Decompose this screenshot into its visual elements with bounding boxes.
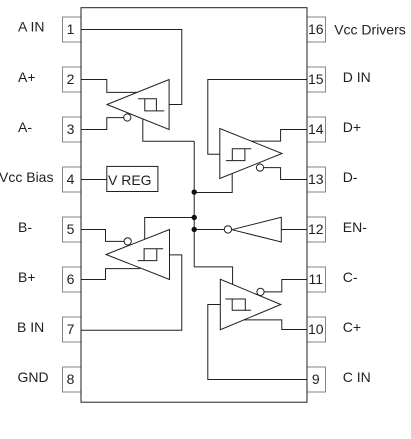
svg-text:B+: B+ [18, 269, 36, 285]
svg-text:A IN: A IN [18, 19, 44, 35]
svg-text:Vcc Drivers: Vcc Drivers [334, 22, 406, 38]
junction dot inverter output [192, 227, 197, 232]
svg-text:D IN: D IN [343, 69, 371, 85]
net label A IN [18, 19, 44, 35]
net label B+ [18, 269, 36, 285]
wire C+: pin 10 to driver C noninverting output [244, 320, 307, 330]
pin 4 box [63, 167, 82, 192]
svg-text:C+: C+ [343, 319, 361, 335]
pin number 8 [67, 371, 75, 387]
net label A- [18, 119, 32, 135]
enable inverter triangle [232, 217, 281, 242]
pin 6 box [63, 267, 82, 292]
svg-text:14: 14 [308, 121, 324, 137]
hysteresis symbol driver B [138, 249, 164, 261]
net label EN- [343, 219, 367, 235]
svg-text:C-: C- [343, 269, 358, 285]
svg-text:2: 2 [67, 71, 75, 87]
wire enable to driver D [194, 174, 232, 193]
driver A triangle [107, 80, 169, 130]
pin 8 box [63, 367, 82, 392]
svg-text:4: 4 [67, 171, 75, 187]
svg-text:EN-: EN- [343, 219, 367, 235]
pin number 5 [67, 221, 75, 237]
pin number 6 [67, 271, 75, 287]
driver D triangle [220, 129, 282, 179]
svg-text:11: 11 [309, 271, 324, 287]
wire B+: pin 6 to driver B noninverting output [81, 269, 140, 280]
inversion bubble C- [257, 288, 264, 295]
pin 14 box [307, 117, 326, 142]
pin 9 box [307, 367, 326, 392]
hysteresis symbol driver A [138, 99, 164, 111]
net label B- [18, 219, 32, 235]
net label C- [343, 269, 358, 285]
pin number 13 [308, 171, 324, 187]
wire A-: pin 3 to driver A inverting output bubble [81, 118, 124, 130]
inversion bubble A- [124, 114, 131, 121]
net label Vcc Bias [0, 169, 53, 185]
svg-text:C IN: C IN [343, 369, 371, 385]
junction dot B enable [192, 215, 197, 220]
svg-text:B-: B- [18, 219, 32, 235]
inversion bubble D- [256, 164, 263, 171]
wire A+: pin 2 to driver A noninverting output [81, 80, 138, 93]
svg-text:B IN: B IN [17, 319, 44, 335]
net label C IN [343, 369, 371, 385]
pin number 12 [308, 221, 324, 237]
svg-text:15: 15 [308, 71, 324, 87]
hysteresis symbol driver D [226, 149, 251, 161]
pin number 14 [308, 121, 324, 137]
wire D+: pin 14 to driver D noninverting output [251, 130, 307, 142]
pin 11 box [307, 267, 326, 292]
wire D IN: pin 15 to driver D input [208, 80, 307, 155]
wire Vcc Bias: pin 4 to V REG [81, 179, 107, 181]
pin number 15 [308, 71, 324, 87]
svg-text:A+: A+ [18, 69, 36, 85]
svg-text:GND: GND [18, 369, 49, 385]
pin number 2 [67, 71, 75, 87]
pin 13 box [307, 167, 326, 192]
wire B IN: pin 7 to driver B input [81, 255, 182, 330]
pin 7 box [63, 317, 82, 342]
hysteresis symbol driver C [225, 299, 251, 310]
inversion bubble B- [124, 238, 131, 245]
net label B IN [17, 319, 44, 335]
pin 2 box [63, 67, 82, 92]
svg-text:8: 8 [67, 371, 75, 387]
wire C-: pin 11 to driver C inverting output bubble [264, 280, 307, 292]
pin number 3 [67, 121, 75, 137]
pin 15 box [307, 67, 326, 92]
pin number 16 [308, 21, 324, 37]
net label A+ [18, 69, 36, 85]
wire enable bubble to bus [194, 229, 224, 231]
svg-text:5: 5 [67, 221, 75, 237]
svg-text:Vcc Bias: Vcc Bias [0, 169, 53, 185]
wire C IN: pin 9 to driver C input [208, 305, 307, 380]
pin number 9 [312, 371, 320, 387]
voltage regulator V REG box [107, 166, 158, 191]
enable bus vertical wire [193, 141, 195, 267]
net label D- [343, 169, 358, 185]
svg-text:6: 6 [67, 271, 75, 287]
pin 12 box [307, 217, 326, 242]
enable inverter output bubble [224, 226, 231, 233]
wire enable to driver B [145, 218, 195, 240]
wire D-: pin 13 to driver D inverting output bubble [264, 168, 307, 180]
pin 5 box [63, 217, 82, 242]
pin number 4 [67, 171, 75, 187]
wire EN-: pin 12 to enable inverter input [281, 229, 307, 231]
svg-text:3: 3 [67, 121, 75, 137]
svg-text:A-: A- [18, 119, 32, 135]
net label D+ [343, 119, 361, 135]
wire B-: pin 5 to driver B inverting output bubble [81, 230, 124, 242]
svg-text:7: 7 [67, 321, 75, 337]
wire enable to driver A [143, 119, 194, 141]
pin 1 box [63, 17, 82, 42]
svg-text:1: 1 [67, 21, 75, 37]
svg-text:10: 10 [308, 321, 324, 337]
pin 3 box [63, 117, 82, 142]
wire A IN: pin 1 to driver A input [81, 30, 182, 105]
pin number 11 [309, 271, 324, 287]
svg-text:12: 12 [308, 221, 324, 237]
svg-text:9: 9 [312, 371, 320, 387]
pin number 1 [67, 21, 75, 37]
pin number 10 [308, 321, 324, 337]
pin number 7 [67, 321, 75, 337]
junction dot D enable [192, 189, 197, 194]
driver C triangle [220, 279, 280, 329]
svg-text:16: 16 [308, 21, 324, 37]
net label Vcc Drivers [334, 22, 406, 38]
driver B triangle [106, 230, 170, 280]
wire enable to driver C [194, 267, 232, 285]
pin 16 box [307, 17, 326, 42]
net label D IN [343, 69, 371, 85]
net label GND [18, 369, 49, 385]
svg-text:13: 13 [308, 171, 324, 187]
svg-text:V REG: V REG [108, 172, 152, 188]
pin 10 box [307, 317, 326, 342]
svg-text:D+: D+ [343, 119, 361, 135]
IC body outline [81, 8, 307, 403]
svg-text:D-: D- [343, 169, 358, 185]
net label C+ [343, 319, 361, 335]
